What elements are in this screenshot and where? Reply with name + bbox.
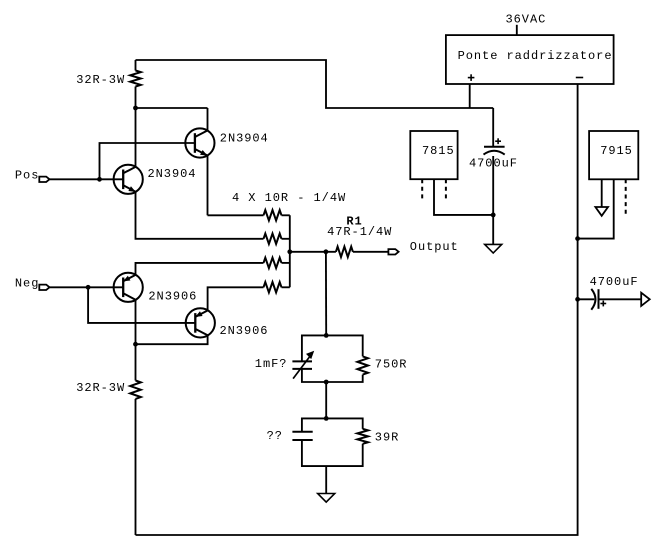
network block2 frame (302, 418, 363, 466)
node block1 bottom junction (324, 380, 329, 385)
C3 variable arrow (293, 351, 314, 379)
ground symbol under network (318, 494, 335, 503)
R3 value label 39R (375, 430, 399, 444)
svg-text:7915: 7915 (600, 144, 633, 158)
wire block2 to ground (325, 466, 327, 493)
node bus/output junction (287, 249, 292, 254)
Neg terminal tag (39, 285, 49, 290)
svg-text:39R: 39R (375, 430, 399, 444)
transistor Q4 2N3906 (186, 308, 215, 337)
wire Q1 collector lead (135, 108, 137, 167)
arrow terminal C2 output (641, 293, 650, 306)
svg-text:Output: Output (410, 240, 459, 254)
wire 7915 middle pin to -rail (578, 179, 614, 238)
resistor 10R row3 (264, 258, 290, 268)
regulator U2 7915 box (589, 131, 638, 179)
Q1 label 2N3904 (148, 167, 197, 181)
wire 7815 middle pin to ground node (434, 179, 493, 215)
Neg input label (15, 277, 39, 291)
transistor Q2 2N3904 (185, 128, 214, 157)
network block1 frame (302, 335, 363, 382)
resistor 10R row1 (264, 210, 290, 220)
Q4 label 2N3906 (220, 324, 269, 338)
Output terminal tag (388, 249, 398, 254)
wire Q1 emitter to resistor row2 (136, 192, 264, 239)
node C1/7815 ground junction (491, 213, 496, 218)
wire Q3 emitter to resistor row3 (136, 263, 264, 275)
Pos terminal tag (39, 177, 49, 182)
wire C2 right lead (599, 298, 641, 300)
wire C1 bottom lead (492, 156, 494, 244)
svg-text:2N3904: 2N3904 (148, 167, 197, 181)
7915 right pin (dashed) (625, 179, 627, 214)
wire Neg node to Q4 base (88, 287, 195, 323)
node 32R/Q1 collector junction (133, 106, 138, 111)
Output label (410, 240, 459, 254)
wire Q2 collector lead (207, 108, 209, 131)
wire Pos to Q1 base (50, 178, 124, 180)
wire Q4 emitter to resistor row4 (208, 287, 264, 310)
Pos input label (15, 169, 39, 183)
Q3 label 2N3906 (148, 290, 197, 304)
wire Neg to Q3 base (50, 286, 124, 288)
svg-text:750R: 750R (375, 358, 408, 372)
bridge + terminal label (468, 74, 475, 81)
wire Q4 collector to Q3 collector (136, 335, 208, 344)
resistor 10R row4 (264, 282, 290, 292)
wire Q2 emitter lead (207, 155, 209, 215)
wire bridge + pin down (469, 84, 471, 108)
svg-text:32R-3W: 32R-3W (76, 381, 125, 395)
resistor 32R-3W (top) label (76, 73, 125, 87)
node network top junction (324, 333, 329, 338)
R1 value label 47R-1/4W (327, 225, 392, 239)
node block2 top junction (324, 416, 329, 421)
svg-text:47R-1/4W: 47R-1/4W (327, 225, 392, 239)
Q2 label 2N3904 (220, 132, 269, 146)
node 7915/-rail junction (575, 236, 580, 241)
7815 right pin (dashed) (445, 179, 447, 199)
svg-text:7815: 7815 (422, 144, 455, 158)
7815 left pin (dashed) (421, 179, 423, 199)
svg-text:4 X 10R - 1/4W: 4 X 10R - 1/4W (232, 191, 346, 205)
bridge - terminal label (576, 77, 583, 79)
wire bus to R1 (290, 251, 336, 253)
resistor 32R-3W (top) (130, 60, 141, 108)
wire block1 to block2 (325, 382, 327, 418)
capacitor C1 4700uF plates (484, 147, 505, 155)
node Q3/Q4 collector junction (133, 342, 138, 347)
resistor R3 39R (357, 429, 368, 444)
transistor Q1 2N3904 (114, 165, 143, 194)
C3 value label 1mF? (255, 357, 288, 371)
ground symbol under C1 (485, 244, 502, 253)
node C2 junction on -rail (575, 297, 580, 302)
wire 32R junction to Q2 collector (136, 107, 208, 109)
resistor 32R-3W (bottom) (130, 344, 141, 535)
wire cap C1 top lead (492, 108, 494, 147)
resistor R2 750R (357, 356, 368, 374)
svg-text:Neg: Neg (15, 277, 39, 291)
resistor 32R-3W (bottom) label (76, 381, 125, 395)
svg-text:4700uF: 4700uF (590, 275, 639, 289)
wire - rail / bottom rail (136, 84, 578, 535)
C1 + polarity mark (495, 138, 501, 144)
svg-text:1mF?: 1mF? (255, 357, 288, 371)
R1 designator label (346, 215, 362, 229)
svg-text:Ponte raddrizzatore: Ponte raddrizzatore (458, 49, 613, 63)
bridge rectifier box (Ponte raddrizzatore) (446, 35, 614, 84)
svg-text:36VAC: 36VAC (506, 13, 547, 27)
svg-text:2N3906: 2N3906 (148, 290, 197, 304)
svg-text:Pos: Pos (15, 169, 39, 183)
resistor R1 47R-1/4W (336, 247, 389, 257)
node 36VAC label (506, 13, 547, 27)
capacitor C2 4700uF plates (591, 289, 598, 310)
node output/compensation junction (324, 249, 329, 254)
resistor 10R row2 (264, 234, 290, 244)
C1 value label 4700uF (469, 156, 518, 170)
svg-text:2N3906: 2N3906 (220, 324, 269, 338)
C2 value label 4700uF (590, 275, 639, 289)
7915 arrow terminal (595, 207, 608, 216)
capacitor C4 ?? plates (292, 432, 312, 440)
wire Q2 base to Pos node (100, 143, 195, 179)
R2 value label 750R (375, 358, 408, 372)
7915 left pin with arrow (601, 179, 603, 207)
capacitor C3 1mF? plates (292, 361, 312, 369)
wire output node down to network (325, 252, 327, 336)
C4 value label ?? (267, 429, 283, 443)
svg-text:32R-3W: 32R-3W (76, 73, 125, 87)
node Pos/Q2-base junction (97, 177, 102, 182)
transistor Q3 2N3906 (114, 273, 143, 302)
wire Q3 collector lead (135, 300, 137, 345)
wire 36VAC stub (516, 25, 518, 35)
label 4 X 10R - 1/4W (232, 191, 346, 205)
C2 + polarity mark (600, 301, 606, 307)
node Neg/Q4-base junction (86, 285, 91, 290)
wire C2 left lead (578, 298, 595, 300)
wire top rail from 32R to cap (136, 60, 494, 108)
wire Q2 emitter to resistor row1 (208, 214, 264, 216)
regulator U1 7815 box (410, 131, 457, 179)
svg-text:2N3904: 2N3904 (220, 132, 269, 146)
svg-text:??: ?? (267, 429, 283, 443)
wire resistor bus (289, 215, 291, 287)
